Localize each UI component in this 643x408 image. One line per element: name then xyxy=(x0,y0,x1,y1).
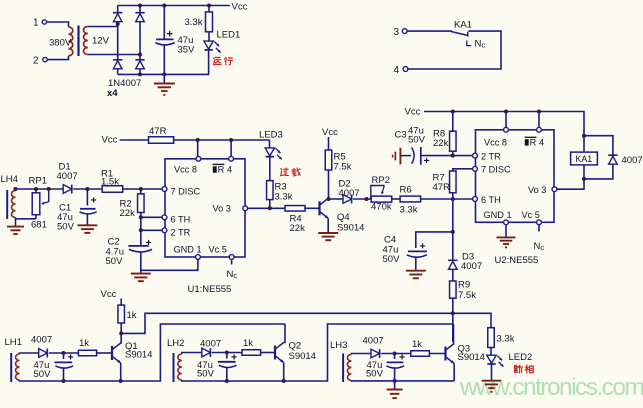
wire U1 top rail xyxy=(174,139,270,141)
wire Q2 collector to bus2 xyxy=(284,324,285,343)
svg-text:R: R xyxy=(218,165,225,175)
node C4 branch xyxy=(451,230,455,234)
svg-text:+: + xyxy=(399,352,405,364)
svg-text:S9014: S9014 xyxy=(458,352,485,363)
resistor 1k pullup xyxy=(118,305,125,323)
svg-text:KA1: KA1 xyxy=(576,154,593,164)
wire bottom rail (bridge negative) xyxy=(118,73,209,75)
node top rail / bridge right xyxy=(138,4,142,8)
svg-text:22k: 22k xyxy=(290,223,306,234)
terminal 4 xyxy=(403,67,408,72)
node Q1 emitter xyxy=(119,379,123,383)
ground U2 pin1 xyxy=(505,225,507,237)
svg-text:Vo 3: Vo 3 xyxy=(213,204,231,214)
svg-text:4: 4 xyxy=(227,165,232,175)
node LH3 cap top xyxy=(393,352,397,356)
svg-text:7.5k: 7.5k xyxy=(458,290,476,301)
svg-text:Vcc 8: Vcc 8 xyxy=(484,138,507,148)
node LH3 cap bottom xyxy=(393,379,397,383)
label yunxing (running) red xyxy=(215,57,220,59)
wire R8 to pin2 node xyxy=(452,151,454,155)
node LH2 cap top xyxy=(225,351,229,355)
U2 pin 6 xyxy=(473,197,478,202)
node LH1 cap bottom xyxy=(62,379,66,383)
svg-text:Vc 5: Vc 5 xyxy=(522,210,540,220)
flyback diode 4007 (KA1) xyxy=(584,136,613,155)
wire 1k to Q1 base xyxy=(97,352,112,354)
node bottom rail / cap-ground xyxy=(162,72,166,76)
node rail pin8 drop xyxy=(196,138,200,142)
capacitor LH1 47u 50V xyxy=(63,353,65,359)
transformer T1 primary winding 380V xyxy=(69,27,73,56)
wire Q1 emitter down xyxy=(120,363,122,381)
wire U2 Vcc rail xyxy=(424,112,584,136)
wire U1 output to R4 xyxy=(248,207,285,209)
svg-text:S9014: S9014 xyxy=(125,350,152,361)
node R3 bottom / output xyxy=(268,206,272,210)
wire terminal2 to transformer primary xyxy=(47,56,68,60)
wire Q4 emitter to ground xyxy=(327,218,329,232)
svg-text:50V: 50V xyxy=(408,135,426,146)
svg-text:50V: 50V xyxy=(383,254,401,265)
wire 1k to Q2 base xyxy=(261,352,275,354)
svg-text:LH1: LH1 xyxy=(5,337,22,348)
svg-text:LED3: LED3 xyxy=(259,130,283,141)
svg-text:50V: 50V xyxy=(366,369,384,380)
LED2 xyxy=(490,348,492,356)
op-amp U2 NE555 body xyxy=(476,130,555,223)
svg-text:4: 4 xyxy=(539,138,544,148)
node Q4 collector xyxy=(327,197,331,201)
wire to U1 pin2 xyxy=(141,229,163,231)
wire diode to 1k (LH3) xyxy=(381,353,411,355)
resistor R8 22k xyxy=(452,112,454,132)
wire drop to U1 pin8 xyxy=(197,140,199,156)
wire LH3 bottom rail xyxy=(351,380,454,382)
transistor Q3 S9014 xyxy=(444,347,446,361)
svg-text:+: + xyxy=(424,155,430,167)
svg-text:50V: 50V xyxy=(197,369,215,380)
capacitor C4 47u 50V xyxy=(408,250,427,252)
ground LED2 xyxy=(482,380,502,382)
capacitor 47u 35V filter xyxy=(163,6,165,40)
U1 pin 6 xyxy=(162,215,167,220)
wire Vcc to R5 xyxy=(328,137,330,150)
node pin2/R8 xyxy=(451,154,455,158)
wire Q1 collector diag to node xyxy=(120,333,123,343)
svg-text:4007: 4007 xyxy=(200,339,221,350)
contact aux mark No xyxy=(467,41,471,46)
node TH column xyxy=(451,197,455,201)
svg-text:380V: 380V xyxy=(49,38,72,49)
svg-text:12V: 12V xyxy=(92,36,110,47)
RP2 wiper arrow xyxy=(371,186,385,200)
wire R1 to U1 pin7 xyxy=(123,188,163,190)
svg-text:+: + xyxy=(91,195,97,207)
svg-text:www.cntronics.com: www.cntronics.com xyxy=(459,374,643,401)
svg-text:4007: 4007 xyxy=(31,335,52,346)
transformer T1 core xyxy=(77,26,79,57)
node top rail / LED1 branch xyxy=(207,4,211,8)
svg-text:R9: R9 xyxy=(458,280,470,291)
wire R5 to collector node xyxy=(328,170,330,199)
wire R4 to Q4 base xyxy=(305,207,320,209)
bridge diode D-c (top right) xyxy=(139,6,141,13)
LED1 xyxy=(208,32,210,41)
wire D2 to RP2 xyxy=(353,198,371,200)
capacitor LH2 47u 50V xyxy=(226,353,228,359)
svg-text:R6: R6 xyxy=(400,185,412,196)
wire bus1 (collector to comparator) xyxy=(121,313,491,333)
wire V+ top rail xyxy=(118,5,230,7)
wire LH1 bottom rail to bus2 xyxy=(20,324,286,381)
wire diode to 1k (LH2) xyxy=(212,352,242,354)
terminal 1 xyxy=(42,20,46,24)
transistor Q2 S9014 xyxy=(274,346,276,360)
wire terminal1 to transformer primary xyxy=(47,22,69,27)
wire 1k to Q3 base xyxy=(429,353,445,355)
svg-text:+: + xyxy=(231,352,237,364)
svg-text:22k: 22k xyxy=(120,208,136,219)
wire D1 to R1 xyxy=(73,188,102,190)
svg-text:50V: 50V xyxy=(106,256,124,267)
ground C1 xyxy=(77,224,97,226)
U2 pin 1 xyxy=(504,220,509,225)
node rail R8 xyxy=(451,110,455,114)
wire U2 pin7 to R7 xyxy=(453,169,473,171)
wire collector node to D2 xyxy=(329,198,344,200)
svg-text:7 DISC: 7 DISC xyxy=(481,165,511,175)
terminal 2 xyxy=(43,57,47,61)
wire Q2 emitter down xyxy=(283,363,285,382)
svg-text:Vcc 8: Vcc 8 xyxy=(174,165,197,175)
svg-text:+: + xyxy=(167,29,173,41)
relay coil KA1 xyxy=(571,152,598,165)
svg-text:Q2: Q2 xyxy=(289,341,302,352)
svg-text:+: + xyxy=(68,352,74,364)
ground C2 xyxy=(131,273,151,275)
svg-text:GND 1: GND 1 xyxy=(484,210,512,220)
node pin2 wire xyxy=(139,228,143,232)
svg-text:2: 2 xyxy=(33,56,39,67)
U1 pin 2 xyxy=(162,228,167,233)
U2 pin 2 xyxy=(473,153,478,158)
svg-text:6 TH: 6 TH xyxy=(481,195,501,205)
label guozai (overload) red xyxy=(284,168,289,170)
wire TH node down xyxy=(452,199,454,260)
wire secondary top to bridge xyxy=(88,24,118,27)
terminal 3 xyxy=(402,29,407,34)
svg-text:47R: 47R xyxy=(149,126,167,137)
wire Vcc to 1k pullup xyxy=(120,299,122,306)
resistor R4 22k xyxy=(285,206,305,212)
svg-text:U1:NE555: U1:NE555 xyxy=(188,284,232,295)
node rail U2 pin4 xyxy=(537,110,541,114)
wire RP2 to R6 xyxy=(392,198,400,200)
svg-text:x4: x4 xyxy=(107,88,118,99)
svg-text:Vcc: Vcc xyxy=(405,107,421,118)
wire drop to U2 pin8 xyxy=(505,112,507,128)
svg-text:LED1: LED1 xyxy=(217,30,241,41)
wire LH1 top xyxy=(20,353,39,354)
svg-text:R: R xyxy=(530,138,537,148)
node RP2 left xyxy=(365,197,369,201)
U2 pin5 Nc stub xyxy=(538,225,540,232)
resistor 47R xyxy=(149,137,174,144)
wire contact to terminal 4 xyxy=(408,31,501,69)
resistor R7 47R xyxy=(450,171,457,193)
ground LH4 xyxy=(15,219,17,226)
wire secondary bottom to bridge xyxy=(88,54,140,56)
svg-text:RP1: RP1 xyxy=(29,176,47,187)
svg-text:Nc: Nc xyxy=(534,241,545,252)
wire U1 pin1 to C2 ground stem xyxy=(141,260,198,271)
node RP1 wiper xyxy=(47,187,51,191)
wire Q3 collector to bus xyxy=(453,324,456,344)
svg-text:4007: 4007 xyxy=(461,261,482,272)
svg-text:S9014: S9014 xyxy=(289,351,316,362)
svg-text:3: 3 xyxy=(394,27,400,38)
label duanxiang (phase loss) red xyxy=(514,365,516,372)
svg-text:4007: 4007 xyxy=(363,336,384,347)
svg-text:LH3: LH3 xyxy=(330,340,347,351)
svg-text:35V: 35V xyxy=(178,45,196,56)
U2 pin 4 xyxy=(537,127,542,132)
wire LH4 bottom xyxy=(16,218,37,219)
node RP1 top xyxy=(34,187,38,191)
wire C3 to U2 pin2 xyxy=(421,155,473,157)
resistor R5 7.5k xyxy=(325,150,332,170)
U1 pin 1 xyxy=(196,255,201,260)
ground LH3 xyxy=(394,381,396,389)
node LH4 top xyxy=(14,187,18,191)
capacitor LH3 47u 50V xyxy=(394,354,396,360)
svg-text:2 TR: 2 TR xyxy=(481,151,501,161)
wire D3 to R9 xyxy=(452,269,454,281)
bridge diode D-d (bottom right) xyxy=(139,55,141,60)
svg-text:Nc: Nc xyxy=(475,39,486,50)
svg-text:Q4: Q4 xyxy=(337,212,350,223)
svg-text:LED2: LED2 xyxy=(509,352,533,363)
U1 pin 4 reset label xyxy=(213,166,217,172)
node KA1 bottom xyxy=(582,177,586,181)
svg-text:Vcc: Vcc xyxy=(322,127,338,138)
capacitor C2 4.7u 50V xyxy=(128,245,148,247)
svg-text:LH4: LH4 xyxy=(1,174,18,185)
RP1 wiper arrow xyxy=(48,189,50,202)
svg-text:1k: 1k xyxy=(79,338,89,349)
capacitor C1 47u 50V xyxy=(86,189,88,206)
svg-text:Vcc: Vcc xyxy=(101,289,117,300)
wire LH3 top xyxy=(351,354,371,355)
svg-text:+: + xyxy=(420,241,426,253)
wire Vcc to 47R xyxy=(120,139,149,141)
svg-text:Vcc: Vcc xyxy=(102,135,118,146)
node R2 top xyxy=(139,187,143,191)
svg-text:1k: 1k xyxy=(243,338,253,349)
ground Q4 xyxy=(318,232,338,234)
wire LH4 top to D1 xyxy=(16,188,64,190)
U1 pin 8 xyxy=(196,156,201,161)
svg-text:50V: 50V xyxy=(34,369,52,380)
ground C4 xyxy=(406,270,426,272)
svg-text:4: 4 xyxy=(394,65,400,76)
U1 pin 3 output xyxy=(243,206,248,211)
svg-text:4007: 4007 xyxy=(57,171,78,182)
U2 pin 4 reset label xyxy=(525,139,529,145)
svg-text:3.3k: 3.3k xyxy=(400,205,418,216)
U1 pin 5 xyxy=(229,255,234,260)
ground main filter xyxy=(163,74,165,82)
node top rail / filter cap xyxy=(162,4,166,8)
node LH2 cap bottom xyxy=(225,379,229,383)
svg-text:+: + xyxy=(146,237,152,249)
U1 pin 4 xyxy=(229,156,234,161)
wire 1k to Q1 collector node xyxy=(120,323,122,333)
wire to C4 xyxy=(416,232,453,248)
op-amp U1 NE555 body xyxy=(165,159,245,257)
svg-text:4007: 4007 xyxy=(622,155,643,166)
wire U2 output to relay xyxy=(557,179,584,189)
svg-text:22k: 22k xyxy=(433,138,449,149)
resistor R9 7.5k xyxy=(450,281,457,298)
svg-text:3.3k: 3.3k xyxy=(497,334,515,345)
svg-text:C3: C3 xyxy=(395,130,407,141)
node bridge right AC input xyxy=(138,53,142,57)
svg-text:1k: 1k xyxy=(127,310,137,321)
U2 pin 5 xyxy=(537,220,542,225)
U2 pin 7 xyxy=(473,166,478,171)
svg-text:7.5k: 7.5k xyxy=(334,162,352,173)
bridge diode D-b (bottom left) xyxy=(117,27,119,60)
wire R9 to bus xyxy=(452,298,454,342)
wire R7 to TH node xyxy=(452,193,454,199)
U1 pin 7 xyxy=(162,187,167,192)
svg-text:GND 1: GND 1 xyxy=(174,245,202,255)
svg-text:681: 681 xyxy=(31,220,47,231)
svg-text:LH2: LH2 xyxy=(167,338,184,349)
wire LH2 bottom rail to Q3 collector bus xyxy=(182,324,454,381)
resistor R3 3.3k xyxy=(267,181,274,200)
wire R6 to U2 pin6 xyxy=(421,198,473,200)
node KA1 top xyxy=(582,134,586,138)
svg-text:7 DISC: 7 DISC xyxy=(171,187,201,197)
U2 pin 3 output xyxy=(552,187,557,192)
svg-text:3.3k: 3.3k xyxy=(185,17,203,28)
wire LH2 top xyxy=(182,353,202,355)
svg-text:3.3k: 3.3k xyxy=(275,192,293,203)
bridge diode D-a (top left) xyxy=(117,6,119,13)
svg-text:Vc 5: Vc 5 xyxy=(209,245,227,255)
svg-text:470k: 470k xyxy=(371,202,392,213)
wire Q3 emitter down xyxy=(453,364,455,381)
relay contact KA1 xyxy=(407,30,452,32)
svg-text:RP2: RP2 xyxy=(372,175,390,186)
transistor Q4 S9014 xyxy=(318,201,320,215)
resistor 3.3k (LED1) xyxy=(208,6,210,12)
node Q1 collector xyxy=(119,331,123,335)
node bridge left AC input xyxy=(116,22,120,26)
node Q2 emitter xyxy=(282,379,286,383)
resistor 3.3k (LED2) xyxy=(488,328,495,348)
svg-text:1: 1 xyxy=(33,18,39,29)
node LH1 cap top xyxy=(62,351,66,355)
node C1 junction xyxy=(85,187,89,191)
wire drop to U2 pin4 xyxy=(538,112,540,128)
U1 pin5 Nc stub xyxy=(231,260,233,265)
svg-text:6 TH: 6 TH xyxy=(171,215,191,225)
svg-text:Vcc: Vcc xyxy=(232,2,248,13)
svg-text:S9014: S9014 xyxy=(337,223,364,234)
wire to U1 pin6 xyxy=(141,216,163,218)
svg-text:47R: 47R xyxy=(433,182,451,193)
svg-text:KA1: KA1 xyxy=(454,20,472,31)
node R9 / bus1 xyxy=(451,311,455,315)
node bottom rail / bridge right xyxy=(138,72,142,76)
svg-text:U2:NE555: U2:NE555 xyxy=(495,255,539,266)
svg-text:1k: 1k xyxy=(412,339,422,350)
transistor Q1 S9014 xyxy=(111,346,113,360)
svg-text:Nc: Nc xyxy=(227,269,238,280)
wire drop to U1 pin4 xyxy=(230,140,232,156)
wire diode to 1k xyxy=(49,352,79,354)
node pin6 wire xyxy=(139,215,143,219)
node rail U2 pin8 xyxy=(504,110,508,114)
node rail pin4 drop xyxy=(229,138,233,142)
svg-text:2 TR: 2 TR xyxy=(171,228,191,238)
svg-text:Vo 3: Vo 3 xyxy=(528,185,546,195)
U2 pin 8 xyxy=(504,127,509,132)
transformer T1 secondary winding 12V xyxy=(84,27,88,55)
svg-text:50V: 50V xyxy=(57,222,75,233)
